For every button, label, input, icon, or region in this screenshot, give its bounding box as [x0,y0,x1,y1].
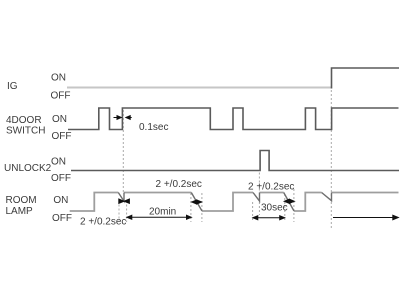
svg-text:OFF: OFF [52,213,72,224]
svg-text:OFF: OFF [51,91,71,102]
svg-text:4DOOR: 4DOOR [6,115,42,126]
svg-text:2 +/0.2sec: 2 +/0.2sec [80,217,126,228]
svg-text:OFF: OFF [52,131,72,142]
svg-text:30sec: 30sec [261,203,288,214]
svg-text:ROOM: ROOM [6,195,37,206]
svg-text:ON: ON [51,157,66,168]
svg-text:SWITCH: SWITCH [6,126,45,137]
svg-text:2 +/0.2sec: 2 +/0.2sec [156,179,202,190]
svg-text:UNLOCK2: UNLOCK2 [4,163,52,174]
svg-text:IG: IG [7,81,18,92]
svg-text:OFF: OFF [51,173,71,184]
svg-text:ON: ON [51,73,66,84]
svg-text:20min: 20min [149,207,176,218]
svg-text:LAMP: LAMP [6,206,34,217]
svg-text:ON: ON [52,114,67,125]
svg-text:ON: ON [53,195,68,206]
svg-text:0.1sec: 0.1sec [139,122,168,133]
svg-text:2 +/0.2sec: 2 +/0.2sec [248,182,294,193]
